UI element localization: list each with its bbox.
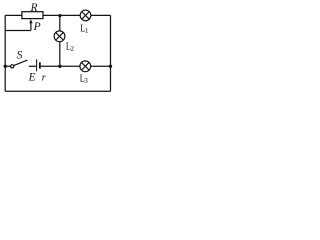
wire L2 branch lower — [59, 42, 61, 67]
lamp L3 — [80, 61, 91, 72]
svg-text:E: E — [28, 71, 36, 83]
wire rail node to switch — [5, 65, 10, 67]
wire rheostat to lamp L1 — [43, 14, 80, 16]
svg-text:L2: L2 — [66, 41, 75, 53]
wire lamp L3 to right border — [91, 65, 111, 67]
wire lamp L1 to top right corner — [91, 14, 111, 16]
svg-text:S: S — [17, 50, 23, 62]
switch S — [11, 60, 28, 68]
wire top left to rheostat — [5, 14, 22, 16]
wire left vertical border — [4, 15, 6, 91]
wire right vertical border — [110, 15, 112, 91]
node top junction of L2 branch — [58, 14, 61, 17]
svg-text:r: r — [42, 71, 47, 83]
lamp L2 — [54, 31, 65, 42]
svg-text:R: R — [29, 2, 37, 14]
svg-text:P: P — [33, 21, 41, 33]
node right rail junction — [109, 65, 112, 68]
svg-text:L1: L1 — [80, 24, 88, 36]
wire battery to node — [41, 65, 80, 67]
wire switch to battery — [29, 65, 36, 67]
lamp L1 — [80, 10, 91, 21]
slider arrow P of rheostat — [29, 19, 32, 30]
svg-text:L3: L3 — [80, 74, 89, 86]
battery E r — [37, 59, 40, 71]
wire slider tap horizontal — [5, 30, 31, 32]
resistor R (rheostat body) — [22, 12, 43, 19]
node left rail junction — [3, 65, 6, 68]
wire L2 branch upper — [59, 15, 61, 31]
wire bottom border — [5, 90, 110, 92]
node rail junction of L2 branch — [58, 65, 61, 68]
